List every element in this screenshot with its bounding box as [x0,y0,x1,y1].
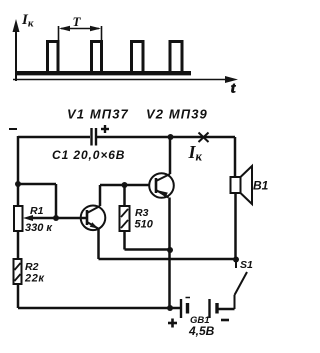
svg-text:Iк: Iк [21,12,34,30]
capacitor C1 [92,128,97,146]
svg-text:В1: В1 [253,179,269,193]
wire: left rail lower [17,284,20,308]
svg-text:Iк: Iк [188,142,203,164]
resistor R3 [120,206,130,231]
wire: R3 to V2 emitter [125,248,171,251]
waveform x-axis [13,76,238,83]
wire: base wire to V1 [56,217,86,220]
battery plus sign [168,319,177,328]
svg-text:R1: R1 [30,205,44,217]
T dimension marker [59,26,102,42]
wire: V2 collector up [169,137,172,174]
svg-text:S1: S1 [240,259,253,271]
transistor V1 [81,206,106,231]
svg-text:C1 20,0×6В: C1 20,0×6В [52,148,125,162]
X break mark (Iк measuring point) [199,133,209,143]
svg-text:T: T [73,14,82,29]
waveform trace baseline [16,71,191,75]
node dot at V2 collector junction [168,134,174,140]
wire: left rail upper [17,136,20,206]
svg-text:22к: 22к [24,273,45,285]
wire: emitter line to switch [99,258,237,261]
node dot at switch top [233,257,239,263]
svg-text:4,5В: 4,5В [188,324,215,338]
wire: collector to V2 base [100,184,150,187]
resistor R2 [14,259,22,284]
waveform y-axis [13,19,20,81]
R1 wiper arrow [23,215,56,221]
speaker B1 [231,166,253,204]
svg-text:R2: R2 [25,261,39,273]
wire: V1 collector up [99,185,102,206]
minus mark on top-left rail [9,128,17,130]
svg-text:330 к: 330 к [25,222,53,234]
svg-text:V1 МП37: V1 МП37 [67,107,129,122]
svg-text:510: 510 [135,219,154,231]
wire: V2 emitter down [168,198,171,309]
wire: top rail right of C1 [96,136,235,139]
node dot on base wire [53,215,59,221]
switch S1 [235,259,248,309]
wire: battery right to switch [219,308,235,311]
wire: top rail left of C1 [18,136,90,139]
wire: rail to wiper link horizontal [18,183,56,186]
wire: bottom rail [18,307,181,310]
node dot on left rail [15,181,21,187]
node dot bottom junction [167,305,173,311]
node dot on V2 emitter line [167,247,173,253]
wire: wiper link vertical [55,184,58,218]
wire: V1 emitter down [97,229,100,259]
wire: R3 bottom lead [123,231,126,250]
waveform pulses [48,42,183,75]
svg-text:V2 МП39: V2 МП39 [146,107,208,122]
wire: R3 top lead [123,185,126,206]
wire: right rail top [234,137,237,177]
node dot above R3 [122,182,128,188]
battery GB1 [181,298,217,319]
svg-text:t: t [231,81,236,97]
wire: left rail between R1 and R2 [17,231,20,259]
battery minus sign [221,319,229,322]
C1 plus sign [101,125,109,133]
wire: speaker to switch node [234,193,237,259]
transistor V2 [149,173,174,198]
svg-text:R3: R3 [135,207,149,219]
resistor R1 (potentiometer) [14,206,23,231]
